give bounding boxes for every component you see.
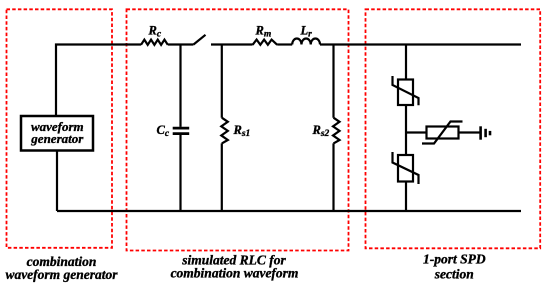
wire: bottom rail — [57, 210, 521, 212]
wire: mid branch to MOV2 — [406, 131, 427, 133]
wire: Cc branch lower — [179, 134, 181, 211]
wire: Rs1 branch upper — [221, 45, 223, 118]
section box: combination waveform generator — [7, 9, 113, 248]
wire: Rc to switch — [168, 43, 194, 45]
svg-text:Cc: Cc — [157, 123, 170, 139]
section box: simulated RLC for combination waveform — [127, 9, 349, 250]
svg-text:Lr: Lr — [300, 24, 313, 40]
svg-text:Rm: Rm — [255, 24, 272, 40]
svg-text:1-port SPD: 1-port SPD — [423, 252, 486, 267]
inductor Lr — [292, 38, 320, 44]
wire: generator to bottom rail — [56, 151, 58, 212]
wire: SPD branch lower — [405, 182, 407, 212]
wire: MOV2 to ground — [459, 131, 481, 133]
svg-text:combination waveform: combination waveform — [171, 266, 299, 281]
varistor MOV1 — [393, 76, 419, 105]
wire: top rail right segment — [320, 43, 521, 45]
wire: Cc branch upper — [179, 45, 181, 127]
waveform generator box — [21, 116, 93, 151]
wire: Rs2 branch upper — [332, 45, 334, 118]
varistor MOV3 — [393, 152, 419, 184]
svg-text:Rs2: Rs2 — [312, 123, 330, 139]
wire: Rs1 branch lower — [221, 143, 223, 211]
capacitor Cc — [173, 127, 190, 130]
wire: SPD branch upper — [405, 45, 407, 80]
svg-text:section: section — [434, 266, 474, 281]
resistor Rm — [253, 40, 278, 45]
ground — [481, 126, 490, 139]
svg-text:generator: generator — [30, 131, 84, 146]
wire: Rs2 branch lower — [332, 143, 334, 211]
section box: 1-port SPD section — [366, 9, 541, 248]
switch blade (open) — [194, 35, 206, 45]
resistor Rc — [141, 40, 168, 45]
varistor MOV2 — [422, 122, 463, 144]
wire: top rail left segment — [56, 45, 141, 117]
svg-text:Rc: Rc — [148, 24, 162, 40]
wire: switch to Rm — [211, 43, 253, 45]
wire: MOV1 to MOV3 — [405, 105, 407, 155]
resistor Rs2 — [333, 118, 340, 144]
svg-text:Rs1: Rs1 — [233, 123, 251, 139]
resistor Rs1 — [221, 118, 228, 144]
svg-text:waveform generator: waveform generator — [5, 267, 118, 282]
wire: Rm to Lr — [277, 43, 292, 45]
